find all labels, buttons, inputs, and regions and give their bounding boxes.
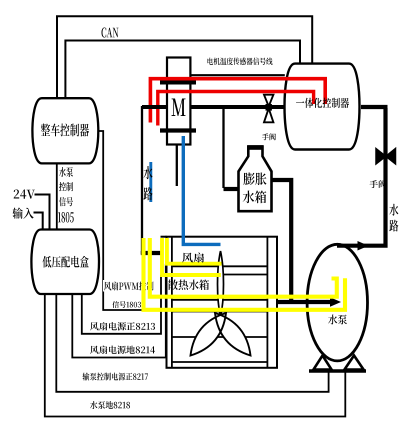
label fan power + 8213 (90, 322, 155, 331)
pipe main water line (over red) (142, 105, 168, 109)
label 24V (14, 190, 35, 199)
wire fan power - 8214 (72, 264, 166, 358)
label U1 zhengchekongzhiqi (41, 124, 89, 137)
label expansion tank line2 (243, 191, 267, 204)
label hand valve left (262, 133, 276, 140)
expansion tank bottle (239, 147, 272, 212)
pipe main water line right segment (190, 105, 284, 109)
wire motor temp sensor (black) (192, 74, 285, 76)
label fan PWM control line1 (103, 280, 155, 292)
hand valve V2 (376, 149, 396, 165)
radiator inner right wall (266, 237, 268, 368)
pipe expansion tank right to pump line (272, 180, 292, 301)
wire fan power + 8213 (82, 275, 161, 334)
pipe radiator to pump with arrow (277, 300, 332, 304)
pipe main water line left segment (142, 105, 168, 109)
yellow wire 2 (to pump) (150, 238, 337, 297)
motor M box (167, 58, 190, 145)
pipe to expansion tank left (224, 187, 240, 191)
label fan power - 8214 (90, 346, 155, 355)
pump base left foot (314, 356, 332, 370)
pipe stub wall to radiator (141, 251, 162, 255)
label hand valve right (370, 180, 387, 188)
radiator row line 5 (172, 336, 268, 338)
wire pump control signal 1805 (56, 164, 58, 231)
motor terminal bar top (160, 80, 196, 84)
label motor temp sensor signal line (208, 58, 273, 66)
fan petal outlines (191, 313, 227, 356)
label expansion tank line1 (244, 173, 267, 186)
radiator inner bottom (172, 361, 268, 363)
wire fan PWM control signal 1803 (97, 131, 143, 310)
label diyapeidianhe (42, 256, 88, 268)
wire 24V input (35, 195, 50, 231)
fan petal right (215, 313, 251, 356)
controller U1 zhengche (32, 98, 98, 163)
label M motor (172, 99, 186, 117)
label shuru (13, 208, 34, 219)
low voltage distribution box (31, 230, 99, 295)
red wire motor temp sensor 2 (158, 92, 314, 126)
label fengshan fan (182, 253, 204, 263)
controller U2 yitihua (285, 64, 360, 150)
expansion tank cap (248, 145, 264, 150)
pipe integrated controller right (361, 105, 388, 109)
yellow wire 1 (to pump lower) (144, 238, 346, 310)
wire enclosure left wall (141, 106, 143, 254)
wire CAN bus inner (65, 41, 300, 100)
radiator inner left wall (171, 237, 173, 368)
radiator row line 3 (172, 299, 268, 301)
wire CAN bus outer (57, 16, 312, 99)
pump base bar (309, 369, 366, 372)
motor terminal bar bottom (160, 128, 196, 132)
blue wire motor to fan (183, 136, 220, 244)
label CAN (102, 28, 119, 38)
label shuilu right vertical (389, 204, 398, 216)
radiator row line 1 (172, 265, 268, 267)
hand valve V1 (264, 95, 273, 107)
blue bar over shuilu text (149, 162, 152, 202)
radiator row line 2 (172, 274, 268, 276)
water pump body (307, 244, 367, 361)
fan petal left (191, 313, 227, 356)
label pump-control-signal column (59, 167, 73, 177)
label pump control power 8217 (83, 373, 149, 381)
radiator row line 4 (172, 311, 268, 313)
pipe pump top / right riser (337, 108, 386, 246)
wire pump control power 8217 (56, 294, 328, 392)
fan hub blade (vertical leaf) (218, 251, 224, 317)
red wire motor temp sensor 1 (150, 79, 325, 123)
wire pump ground 8218 (45, 294, 346, 417)
label fan PWM control line2 (112, 301, 141, 308)
label sanreshuixiang radiator (168, 280, 209, 291)
radiator top-left stub (161, 236, 167, 238)
yellow wire 4 (fan power to fan top) (167, 238, 222, 264)
label shuilu left vertical (144, 166, 153, 179)
radiator frame outer (167, 237, 278, 368)
pump base right foot (345, 356, 364, 370)
motor shaft stub (176, 145, 178, 187)
label pump ground 8218 (90, 401, 130, 409)
pipe expansion tank tee vertical (222, 109, 224, 189)
label shuibeng pump (328, 315, 347, 325)
label yitihuakongzhiqi (296, 98, 349, 108)
yellow wire 3 (162, 238, 221, 275)
wire shuru input (34, 213, 43, 231)
